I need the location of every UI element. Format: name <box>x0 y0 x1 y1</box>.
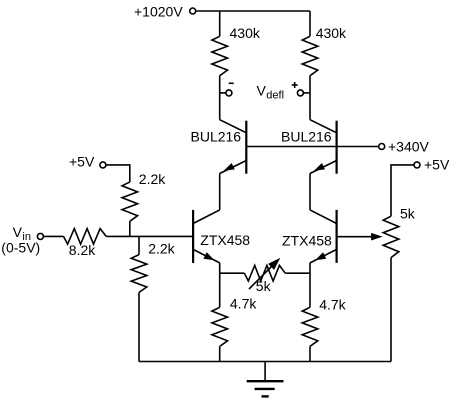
svg-text:ZTX458: ZTX458 <box>200 232 250 248</box>
svg-text:4.7k: 4.7k <box>319 297 346 313</box>
svg-text:5k: 5k <box>256 278 272 294</box>
wire +5V left to 2.2k <box>106 165 130 182</box>
svg-text:8.2k: 8.2k <box>69 242 96 258</box>
potentiometer 5k right <box>383 206 416 258</box>
wire emitter to mid pot left <box>220 272 245 274</box>
node Vdefl label <box>257 83 285 102</box>
wire left 430k drop <box>219 11 221 36</box>
terminal Vdefl minus <box>220 83 234 96</box>
wiper arrow right pot <box>371 233 383 241</box>
resistor 4.7k right <box>302 297 346 347</box>
svg-text:+5V: +5V <box>424 157 450 173</box>
wire 430k left to collector <box>219 76 221 120</box>
resistor 430k right <box>302 25 347 76</box>
wire BUL-R emitter to ZTX-R collector <box>309 174 311 210</box>
svg-text:+1020V: +1020V <box>134 4 183 20</box>
svg-text:2.2k: 2.2k <box>148 241 175 257</box>
wire 2.2k upper to base rail <box>129 221 131 236</box>
resistor 2.2k lower <box>131 236 175 292</box>
svg-text:5k: 5k <box>400 206 416 222</box>
wire ZTX-R emitter down <box>309 263 311 307</box>
svg-text:+340V: +340V <box>388 139 430 155</box>
wire bottom rail <box>139 361 391 363</box>
svg-text:V: V <box>13 224 23 240</box>
transistor BUL216 right <box>281 120 337 174</box>
terminal +340V <box>379 139 430 155</box>
svg-text:BUL216: BUL216 <box>191 129 242 145</box>
resistor 8.2k <box>64 229 107 258</box>
wire 8.2k to ZTX-L base <box>106 235 193 237</box>
svg-text:4.7k: 4.7k <box>230 296 257 312</box>
resistor 4.7k left <box>212 296 257 347</box>
wire top rail <box>196 10 310 12</box>
svg-text:2.2k: 2.2k <box>139 171 166 187</box>
svg-text:ZTX458: ZTX458 <box>282 233 332 249</box>
wire 2.2k lower to bottom rail <box>138 292 140 361</box>
resistor 2.2k upper <box>122 171 166 221</box>
transistor ZTX458 right <box>282 210 337 263</box>
wire +5V right to pot top <box>391 165 414 216</box>
resistor 430k left <box>212 25 261 76</box>
terminal Vin <box>1 224 43 256</box>
svg-text:BUL216: BUL216 <box>281 129 332 145</box>
terminal +5V left <box>69 154 106 170</box>
wire 430k right to collector <box>309 76 311 120</box>
wire pot bottom to bottom rail <box>390 258 392 362</box>
terminal +5V right <box>414 157 450 173</box>
wire ZTX-L emitter down <box>219 263 221 307</box>
transistor ZTX458 left <box>193 210 250 263</box>
terminal Vdefl plus <box>292 82 310 96</box>
wire base rail BUL216 <box>246 146 378 148</box>
svg-text:(0-5V): (0-5V) <box>1 240 40 256</box>
ground <box>247 362 284 397</box>
wire Vin to 8.2k <box>43 235 63 237</box>
transistor BUL216 left <box>191 120 247 174</box>
svg-text:V: V <box>257 83 267 99</box>
potentiometer 5k middle <box>244 258 285 294</box>
svg-text:defl: defl <box>266 90 284 102</box>
terminal +1020V <box>134 4 196 20</box>
wire ZTX-R base to pot wiper <box>337 236 373 238</box>
wire right 430k drop <box>309 11 311 36</box>
svg-text:+5V: +5V <box>69 154 95 170</box>
svg-text:430k: 430k <box>316 25 347 41</box>
wire mid pot to right emitter <box>285 272 310 274</box>
wire BUL-L emitter to ZTX-L collector <box>219 174 221 210</box>
wire 4.7k right to bottom rail <box>309 346 311 361</box>
svg-text:430k: 430k <box>230 25 261 41</box>
wire 4.7k left to bottom rail <box>219 346 221 361</box>
